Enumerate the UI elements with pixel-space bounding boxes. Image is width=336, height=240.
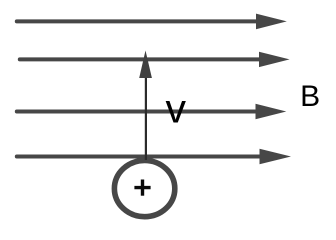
field line arrow 1 (top B field line) bbox=[17, 14, 287, 30]
velocity arrow v: shaft bbox=[145, 76, 147, 160]
positive charge particle: circle bbox=[114, 161, 174, 217]
field line arrow 2 bbox=[20, 52, 290, 67]
svg-text:B: B bbox=[300, 80, 320, 113]
field line arrow 3 bbox=[17, 104, 287, 120]
svg-text:v: v bbox=[166, 86, 187, 132]
velocity arrow v: head bbox=[139, 51, 152, 79]
field line arrow 4 (bottom B field line) bbox=[17, 149, 291, 165]
plus sign inside charge bbox=[134, 180, 150, 196]
